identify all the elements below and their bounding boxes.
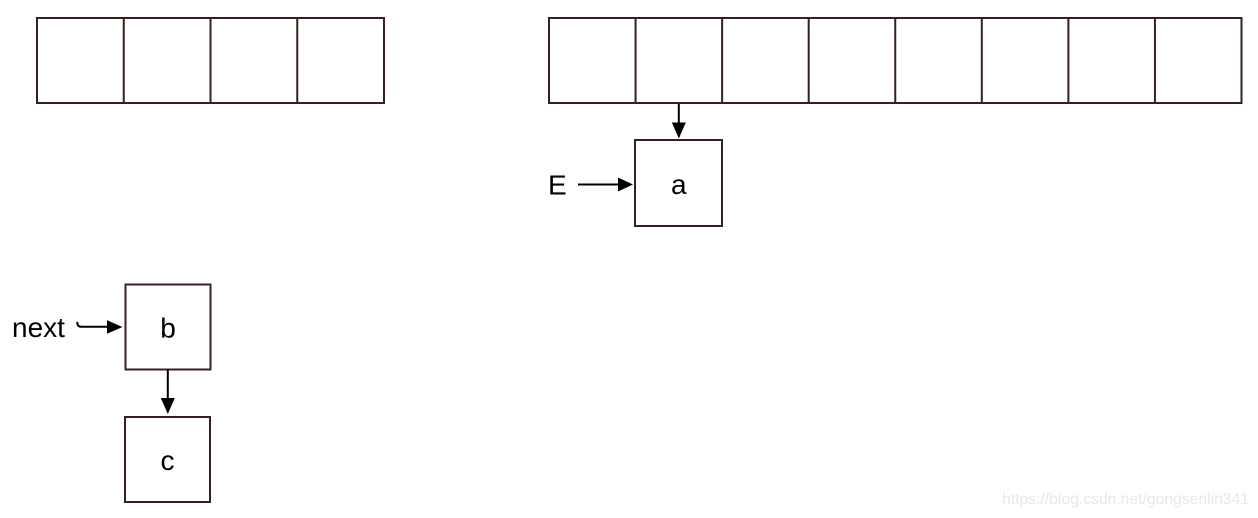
svg-text:c: c bbox=[161, 445, 175, 476]
svg-text:b: b bbox=[160, 313, 176, 344]
svg-text:next: next bbox=[12, 312, 65, 343]
svg-text:E: E bbox=[548, 170, 567, 201]
svg-text:https://blog.csdn.net/gongsenl: https://blog.csdn.net/gongsenlin341 bbox=[1002, 491, 1249, 508]
svg-text:a: a bbox=[671, 169, 687, 200]
